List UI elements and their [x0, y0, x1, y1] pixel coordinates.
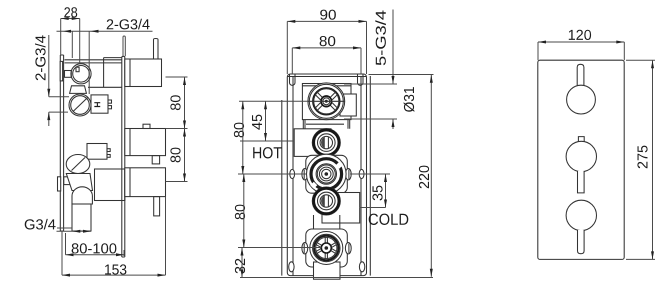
lower body box [95, 169, 125, 201]
thermostat ear left [302, 169, 308, 180]
plate lug lower left [58, 177, 61, 191]
dimension 80 right upper [166, 77, 188, 182]
valve block 2 [125, 124, 166, 164]
dimension 220 (rotated) [240, 75, 434, 278]
dimension 32 (rotated) [235, 248, 245, 278]
funnel fitting [66, 174, 92, 191]
label G3/4 bottom [25, 219, 91, 233]
handle stem 2 [578, 171, 585, 193]
dimension 80 top [292, 36, 361, 74]
mid row block [87, 144, 110, 160]
bottom outlet port circle [310, 232, 343, 265]
dimension 90 [287, 10, 366, 74]
dimension 120 [538, 30, 624, 60]
bottom flange [306, 229, 348, 267]
handle circle 1 [567, 85, 596, 114]
top screw slot left [290, 75, 296, 86]
outlet pipe [72, 204, 91, 231]
bottom ear right [345, 243, 351, 254]
mid screw slot right [359, 169, 364, 178]
plate lug upper [65, 71, 72, 78]
port circle 1 [71, 64, 91, 84]
cold inlet box [322, 193, 360, 224]
handle circle 3 [566, 200, 596, 230]
bottom screw slot right [359, 262, 364, 272]
thermostat circle [307, 154, 347, 194]
thermostat flange [306, 155, 348, 193]
connector lines under top box [303, 120, 349, 129]
label HOT [253, 147, 282, 158]
plate left strip [60, 61, 62, 81]
top screw slot right [358, 75, 364, 86]
body top edge [65, 60, 122, 63]
dimension 80 mid-left lower (rotated) [235, 174, 322, 248]
hot inlet box [294, 129, 331, 157]
plate tab lower right [64, 177, 73, 185]
hex fitting [70, 86, 87, 94]
dimension 275 (rotated) [626, 60, 655, 259]
top outlet port circle [308, 83, 345, 120]
dimension 80 right lower [170, 148, 186, 182]
dimension Ø31 (rotated) [344, 84, 414, 129]
H block [91, 95, 112, 113]
dimension 80 mid-left upper (rotated) [234, 101, 307, 174]
bottom screw slot left [289, 262, 294, 272]
bottom ear left [302, 243, 308, 254]
mounting plate outline [287, 74, 366, 276]
dimension 45 (rotated) [239, 101, 308, 141]
handle 2 top tab [578, 137, 584, 142]
label COLD [360, 208, 409, 226]
elbow dome [72, 187, 92, 204]
top outlet box [302, 84, 351, 120]
handle stem 3 [578, 230, 585, 254]
label 2-G3/4 left (rotated) [35, 35, 69, 126]
thermostat ear right [345, 169, 351, 180]
body side lines [282, 76, 371, 276]
mid screw slot left [290, 169, 295, 178]
mounting bracket plate [122, 36, 126, 257]
wall plate [60, 55, 63, 231]
label 2-G3/4 top [57, 19, 153, 94]
body top boss [88, 58, 122, 88]
hot port circle [312, 129, 340, 157]
dimension 28 [61, 7, 80, 63]
connector lines above bottom port [314, 215, 340, 229]
valve block 1 [125, 39, 162, 87]
dimension 35 (rotated) [350, 174, 390, 208]
port circle 2 [69, 94, 91, 116]
dimension 153 [62, 197, 166, 277]
label 5-G3/4 (rotated) [375, 10, 394, 85]
cold port circle [312, 187, 340, 215]
handle circle 2 [566, 141, 596, 171]
trim plate [538, 60, 624, 259]
bottom body below plate [314, 262, 341, 279]
handle stem 1 [577, 64, 584, 86]
valve block 3 [125, 168, 166, 216]
dimension 80-100 [66, 233, 125, 256]
port 3 oval [66, 155, 90, 174]
